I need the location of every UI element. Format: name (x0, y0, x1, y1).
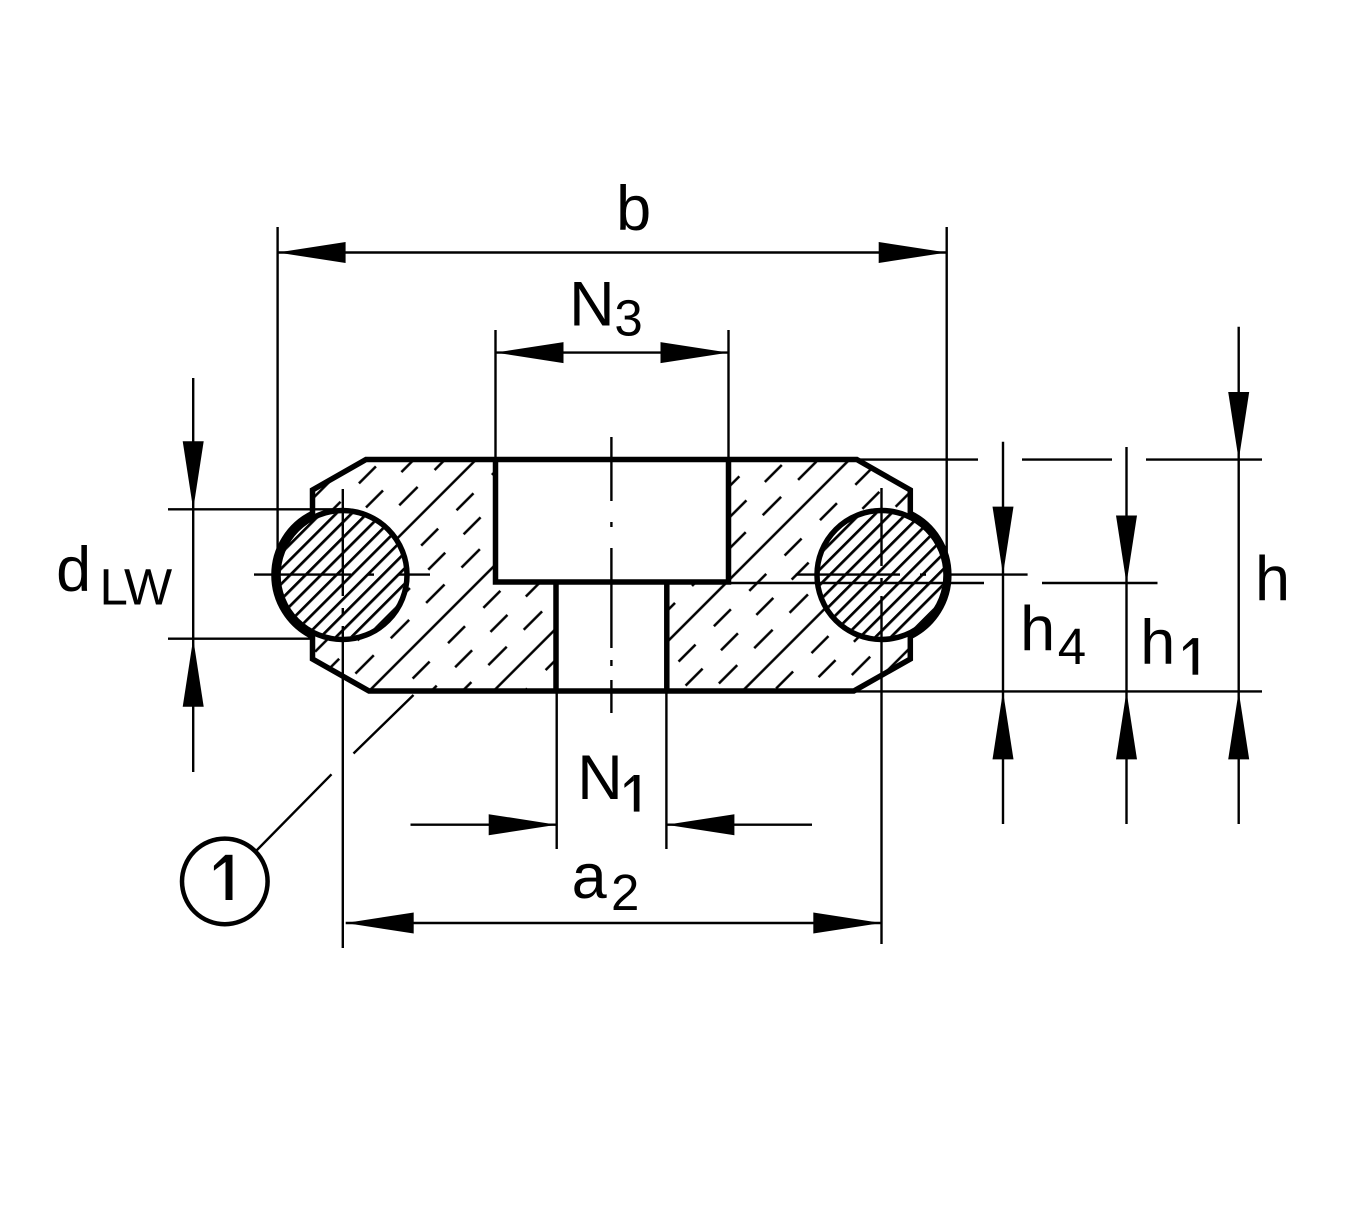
svg-text:4: 4 (1058, 618, 1086, 675)
svg-text:a: a (572, 842, 608, 912)
right ball horizontal centerline / h4 reference (796, 573, 900, 575)
svg-text:h: h (1255, 544, 1290, 614)
pocket N3 outline (496, 460, 729, 583)
dimension a2 (346, 922, 882, 924)
svg-text:h: h (1140, 608, 1175, 678)
dimension h (1237, 327, 1239, 824)
dimension h1 (1125, 447, 1127, 824)
svg-text:LW: LW (99, 559, 172, 616)
slot N1 outline (553, 582, 559, 691)
svg-text:h: h (1020, 595, 1055, 665)
dimension b (276, 227, 278, 580)
svg-text:N: N (577, 743, 623, 813)
svg-text:d: d (56, 535, 91, 605)
left ball vertical centerline / a2 extension (342, 489, 344, 596)
body cross-section hatched (274, 460, 949, 692)
bottom edge reference line (854, 690, 1262, 692)
dimension N3 (494, 330, 496, 459)
pocket bottom reference line (h1) (730, 582, 984, 584)
part vertical centerline (610, 437, 612, 501)
left ball horizontal centerline (254, 573, 351, 575)
top edge reference line (h) (860, 458, 978, 460)
right ball vertical centerline / a2 extension (880, 488, 882, 566)
left ball (278, 511, 407, 640)
svg-text:N: N (569, 269, 615, 339)
dimension dLW (192, 378, 194, 772)
dimension h4 (1002, 442, 1004, 824)
body outline (274, 460, 949, 692)
callout circle 1 with leader (257, 774, 332, 850)
svg-text:2: 2 (611, 864, 639, 921)
right ball (817, 511, 946, 640)
dimension N1 (556, 693, 558, 849)
svg-text:3: 3 (614, 289, 642, 346)
svg-text:b: b (616, 174, 651, 244)
